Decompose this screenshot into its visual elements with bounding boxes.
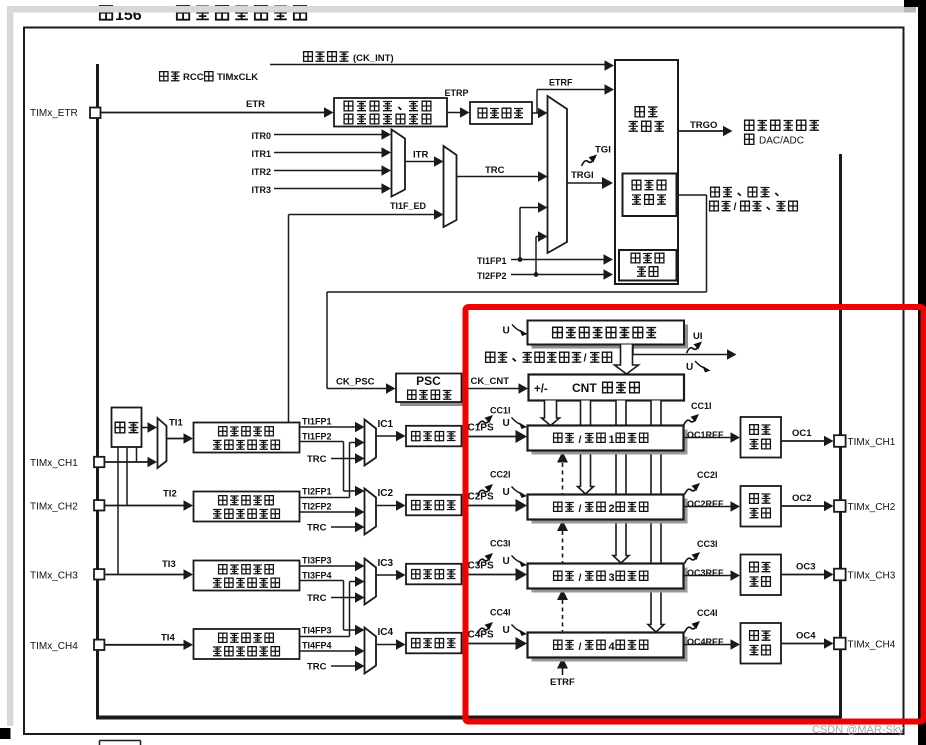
- left pin bus line: [96, 64, 99, 718]
- box slave mode controller 从模式控制器: [623, 174, 677, 217]
- dashed capture arrow into register 2: [562, 531, 564, 563]
- wire ITR3: [274, 188, 382, 190]
- wire TI4 from pin to input filter: [105, 644, 185, 646]
- wire TI1FP2 down to IC2 mux: [300, 441, 344, 443]
- wire TI3FP4 down to IC4 mux: [300, 580, 344, 582]
- black band right edge: [918, 0, 926, 745]
- box capture compare register 1 捕获/比较1寄存器: [532, 430, 688, 455]
- wire ETRF into register 4: [562, 668, 564, 675]
- svg-text:CC3I: CC3I: [697, 539, 718, 549]
- svg-text:TRC: TRC: [307, 454, 327, 465]
- svg-text:ITR0: ITR0: [251, 131, 271, 141]
- wire TI4FP3 up to IC3 mux: [300, 636, 350, 638]
- svg-text:ETR: ETR: [246, 99, 265, 110]
- wire IC3: [376, 574, 397, 576]
- wire TI1FP1 into IC1 mux: [300, 426, 357, 428]
- wire C1PS into capture register: [462, 436, 517, 438]
- wire XOR input from TI2: [126, 447, 128, 506]
- svg-text:1: 1: [609, 434, 615, 446]
- label 内部时钟 (CK_INT): [304, 52, 313, 62]
- svg-text:TRC: TRC: [307, 662, 327, 673]
- label 停止、清除或向上/向下: [486, 352, 495, 362]
- box input filter and edge detector channel 4 输入滤波器 和边沿检测器: [194, 629, 300, 659]
- black square bottom-left: [0, 728, 11, 739]
- svg-text:UI: UI: [693, 331, 703, 342]
- svg-text:U: U: [686, 362, 693, 373]
- box channel prescaler 2 预分频器: [406, 495, 462, 516]
- box channel prescaler 4 预分频器: [406, 633, 462, 654]
- svg-text:OC1: OC1: [792, 428, 812, 439]
- interrupt symbol CC3I left: [478, 553, 494, 565]
- svg-text:/: /: [579, 641, 582, 653]
- svg-text:ITR3: ITR3: [251, 185, 271, 195]
- svg-text:/: /: [579, 503, 582, 515]
- svg-text:U: U: [503, 625, 510, 636]
- interrupt symbol CC2I left: [478, 484, 494, 496]
- svg-text:TIMx_CH2: TIMx_CH2: [848, 502, 896, 513]
- svg-text:TI1F_ED: TI1F_ED: [390, 201, 427, 211]
- partial box of next figure at bottom: [100, 740, 141, 742]
- svg-text:/: /: [584, 353, 587, 365]
- svg-text:TRC: TRC: [485, 165, 505, 176]
- svg-text:ETRF: ETRF: [549, 78, 573, 88]
- pin TIMx_CH2 square left: [94, 500, 104, 510]
- svg-text:TRC: TRC: [307, 523, 327, 534]
- box auto-reload register 自动重装载寄存器: [532, 325, 689, 349]
- pin TIMx_CH4 square right: [834, 638, 846, 650]
- svg-text:OC2REF: OC2REF: [687, 499, 724, 509]
- mux IC4 selector: [365, 628, 377, 674]
- mux IC2 selector: [365, 489, 377, 535]
- wire slave mode control to prescaler (reset enable updown count): [677, 194, 707, 196]
- wire TRGO: [678, 130, 723, 132]
- box output control 2 输出控制: [741, 486, 782, 527]
- wire TI3FP3 into IC3 mux: [300, 565, 357, 567]
- wire TIMx_CH1 pin to mux: [105, 461, 150, 463]
- box output control 1 输出控制: [741, 417, 782, 458]
- svg-text:TIMx_ETR: TIMx_ETR: [30, 108, 78, 119]
- wire IC4: [376, 644, 397, 646]
- wire TRC to trigger mux: [457, 176, 539, 178]
- wire CK_INT internal clock: [270, 64, 605, 66]
- box XOR 异或: [112, 408, 142, 448]
- wire XOR input from TI3: [117, 447, 119, 575]
- svg-text:IC2: IC2: [378, 488, 394, 499]
- wire OC1REF: [684, 437, 733, 439]
- wire ITR2: [274, 170, 382, 172]
- svg-text:OC4: OC4: [796, 631, 816, 642]
- right pin bus line: [839, 154, 842, 718]
- box counter CNT 计数器: [529, 375, 685, 401]
- hollow arrow CNT to capture compare 4: [648, 401, 664, 633]
- figure title (top, cut by gray strip): [100, 6, 112, 20]
- svg-text:TI4FP3: TI4FP3: [302, 626, 332, 636]
- hollow arrow CNT to capture compare 3: [613, 401, 629, 564]
- gray border strip top right tip: [904, 6, 916, 13]
- svg-text:TRC: TRC: [307, 593, 327, 604]
- svg-text:TIMx_CH1: TIMx_CH1: [30, 458, 78, 469]
- svg-text:TIMx_CH2: TIMx_CH2: [30, 501, 78, 512]
- wire ETRP: [447, 112, 461, 114]
- mux TI1 xor selector: [158, 418, 167, 468]
- box polarity selection 极性选择、边沿 / 检测和预分频器: [334, 98, 447, 127]
- svg-text:CK_CNT: CK_CNT: [471, 376, 510, 387]
- interrupt symbol CC4I right: [685, 621, 701, 633]
- label 至其它定时器 / 至 DAC/ADC: [745, 120, 754, 130]
- svg-text:OC1REF: OC1REF: [687, 430, 724, 440]
- hollow arrow ARR to CNT: [615, 345, 639, 375]
- svg-text:CK_PSC: CK_PSC: [336, 377, 375, 388]
- wire ITR0: [274, 134, 382, 136]
- wire TI4FP4 into IC4 mux: [300, 650, 357, 652]
- gray border strip top: [7, 6, 904, 13]
- dashed capture arrow into register 1: [562, 463, 564, 494]
- svg-text:TI1: TI1: [169, 418, 183, 429]
- svg-text:TI2: TI2: [163, 489, 177, 500]
- wire TI1FP1 to encoder and trigger mux: [511, 259, 605, 261]
- svg-text:IC3: IC3: [378, 558, 394, 569]
- svg-text:/: /: [579, 434, 582, 446]
- box input filter and edge detector channel 3 输入滤波器 和边沿检测器: [194, 561, 300, 591]
- pin TIMx_ETR square: [90, 108, 101, 119]
- pin TIMx_CH1 square left: [94, 457, 104, 467]
- box capture compare register 4 捕获/比较4寄存器: [532, 637, 688, 662]
- svg-text:TI1FP2: TI1FP2: [302, 432, 332, 442]
- red highlight box: [466, 307, 924, 722]
- svg-text:ETRF: ETRF: [550, 677, 575, 688]
- svg-text:CC1I: CC1I: [490, 406, 511, 416]
- svg-text:PSC: PSC: [416, 374, 441, 388]
- svg-text:OC3REF: OC3REF: [687, 568, 724, 578]
- svg-text:/: /: [734, 201, 737, 213]
- bottom rail thick line: [96, 716, 842, 720]
- interrupt symbol CC4I left: [478, 622, 494, 634]
- wire OC3: [781, 574, 824, 576]
- svg-text:C4PS: C4PS: [468, 630, 494, 641]
- box PSC prescaler PSC 预分频器: [400, 378, 466, 407]
- gray border strip left: [7, 6, 14, 726]
- svg-text:(CK_INT): (CK_INT): [353, 53, 394, 64]
- svg-text:ITR: ITR: [413, 150, 428, 161]
- svg-text:RCC: RCC: [183, 72, 204, 83]
- svg-text:TI2FP2: TI2FP2: [302, 502, 332, 512]
- svg-text:U: U: [503, 326, 510, 337]
- wire XOR input from TI1: [136, 447, 138, 462]
- svg-text:TI4: TI4: [161, 633, 175, 644]
- svg-text:/: /: [579, 572, 582, 584]
- svg-text:ETRP: ETRP: [445, 88, 469, 98]
- wire ETR: [101, 112, 326, 114]
- wire TI2FP2 to encoder and trigger mux: [511, 274, 605, 276]
- wire XOR output to TI1 mux: [142, 427, 150, 429]
- svg-text:U: U: [503, 556, 510, 567]
- svg-text:ITR2: ITR2: [251, 167, 271, 177]
- svg-text:TI1FP1: TI1FP1: [477, 256, 507, 266]
- svg-text:C1PS: C1PS: [468, 423, 494, 434]
- box input filter and edge detector channel 2 输入滤波器 和边沿检测器: [194, 492, 300, 522]
- svg-text:U: U: [503, 418, 510, 429]
- svg-text:C3PS: C3PS: [468, 561, 494, 572]
- svg-text:OC3: OC3: [796, 562, 816, 573]
- svg-text:TRGO: TRGO: [690, 120, 717, 131]
- box output control 3 输出控制: [741, 555, 782, 596]
- svg-text:CC2I: CC2I: [697, 470, 718, 480]
- svg-text:CC4I: CC4I: [490, 608, 511, 618]
- interrupt symbol UI: [687, 342, 703, 354]
- svg-text:CC4I: CC4I: [697, 608, 718, 618]
- interrupt symbol CC1I right: [684, 414, 700, 426]
- wire OC1: [781, 440, 824, 442]
- wire OC2REF: [684, 506, 733, 508]
- svg-text:OC2: OC2: [792, 493, 812, 504]
- wire CK_CNT: [462, 388, 520, 390]
- interrupt symbol CC1I left: [478, 415, 494, 427]
- wire C3PS into capture register: [462, 574, 517, 576]
- wire TI1 into input filter 1: [167, 438, 185, 440]
- mux IC1 selector: [365, 420, 377, 466]
- svg-text:+/-: +/-: [534, 384, 548, 396]
- wire TRC stub channel 1: [331, 458, 356, 460]
- wire UI update event: [632, 345, 634, 355]
- wire OC4REF: [684, 644, 733, 646]
- svg-text:IC4: IC4: [378, 627, 394, 638]
- pin TIMx_CH3 square right: [834, 569, 846, 581]
- svg-text:TI3: TI3: [162, 559, 176, 570]
- label 复位、使能、向上/向下、计数: [711, 187, 720, 197]
- svg-text:CSDN @MAR-Sky: CSDN @MAR-Sky: [812, 724, 904, 736]
- wire TI2FP2 into IC2 mux: [300, 511, 357, 513]
- svg-text:TI1FP1: TI1FP1: [302, 417, 332, 427]
- svg-text:DAC/ADC: DAC/ADC: [759, 136, 804, 147]
- box capture compare register 3 捕获/比较3寄存器: [532, 568, 688, 593]
- wire TI2 from pin to input filter: [105, 505, 185, 507]
- wire TI1F_ED: [288, 215, 290, 423]
- interrupt symbol CC2I right: [685, 483, 701, 495]
- interrupt symbol TGI: [582, 155, 598, 167]
- svg-text:TI3FP4: TI3FP4: [302, 571, 332, 581]
- svg-text:3: 3: [609, 572, 615, 584]
- svg-text:C2PS: C2PS: [468, 492, 494, 503]
- wire ITR output: [405, 161, 435, 163]
- svg-text:IC1: IC1: [378, 419, 394, 430]
- box input filter and edge detector channel 1 输入滤波器 和边沿检测器: [194, 423, 300, 453]
- wire ITR1: [274, 152, 382, 154]
- svg-text:TI2FP2: TI2FP2: [477, 271, 507, 281]
- svg-text:2: 2: [609, 503, 615, 515]
- svg-text:CNT: CNT: [572, 381, 597, 395]
- wire TRC stub channel 3: [331, 597, 356, 599]
- svg-text:U: U: [503, 487, 510, 498]
- wire TI3 from pin to input filter: [105, 574, 185, 576]
- wire OC3REF: [684, 575, 733, 577]
- wire IC2: [376, 505, 397, 507]
- wire OC4: [781, 643, 824, 645]
- svg-text:TIMxCLK: TIMxCLK: [217, 72, 258, 83]
- wire TRC stub channel 2: [331, 526, 356, 528]
- svg-text:CC3I: CC3I: [490, 539, 511, 549]
- wire TI2FP1 up to IC1 mux: [300, 497, 350, 499]
- wire IC1: [376, 435, 397, 437]
- wire C2PS into capture register: [462, 505, 517, 507]
- svg-text:TIMx_CH1: TIMx_CH1: [848, 437, 896, 448]
- wire TRC stub channel 4: [331, 665, 356, 667]
- hollow arrow CNT to capture compare 2: [578, 401, 594, 495]
- hollow arrow CNT to capture compare 1: [542, 401, 560, 426]
- mux IC3 selector: [365, 559, 377, 605]
- box channel prescaler 1 预分频器: [406, 426, 462, 447]
- interrupt symbol CC3I right: [685, 552, 701, 564]
- box encoder interface 编码器接口: [619, 250, 677, 281]
- pin TIMx_CH4 square left: [94, 640, 104, 650]
- pin TIMx_CH3 square left: [94, 569, 104, 579]
- svg-text:TIMx_CH4: TIMx_CH4: [848, 640, 896, 651]
- wire C4PS into capture register: [462, 643, 517, 645]
- mux ITR selector: [392, 130, 406, 197]
- wire ETRF to trigger controller and edge mux: [532, 112, 538, 114]
- pin TIMx_CH2 square right: [834, 500, 846, 512]
- wire TRGI: [567, 182, 602, 184]
- svg-text:TRGI: TRGI: [571, 170, 594, 181]
- mux trigger input selector: [548, 96, 568, 253]
- box input filter 输入滤波: [470, 102, 532, 124]
- box output control 4 输出控制: [741, 623, 782, 664]
- svg-text:CC1I: CC1I: [691, 401, 712, 411]
- svg-text:CC2I: CC2I: [490, 470, 511, 480]
- black corner top-right: [904, 0, 926, 7]
- svg-text:TI3FP3: TI3FP3: [302, 556, 332, 566]
- dashed capture arrow into register 3: [562, 600, 564, 632]
- pin TIMx_CH1 square right: [834, 435, 846, 447]
- svg-text:ITR1: ITR1: [251, 149, 271, 159]
- box trigger controller 触发控制器: [615, 60, 678, 284]
- svg-text:TI4FP4: TI4FP4: [302, 641, 332, 651]
- svg-text:TGI: TGI: [595, 145, 611, 156]
- svg-text:TIMx_CH3: TIMx_CH3: [30, 570, 78, 581]
- mux TRC selector: [444, 146, 457, 227]
- svg-text:TI2FP1: TI2FP1: [302, 487, 332, 497]
- box capture compare register 2 捕获/比较2寄存器: [532, 499, 688, 524]
- svg-text:OC4REF: OC4REF: [687, 637, 724, 647]
- label 来自RCC的TIMxCLK: [160, 72, 168, 81]
- wire OC2: [781, 505, 824, 507]
- svg-text:TIMx_CH3: TIMx_CH3: [848, 571, 896, 582]
- svg-text:4: 4: [609, 641, 616, 653]
- box channel prescaler 3 预分频器: [406, 564, 462, 585]
- svg-text:TIMx_CH4: TIMx_CH4: [30, 641, 78, 652]
